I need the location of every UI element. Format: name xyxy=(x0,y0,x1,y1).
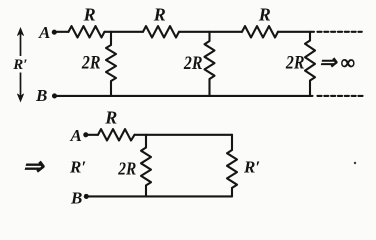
svg-text:R′: R′ xyxy=(243,158,260,177)
svg-text:2R: 2R xyxy=(117,159,136,179)
svg-text:R: R xyxy=(83,5,96,25)
svg-text:⇒: ⇒ xyxy=(23,154,46,181)
measurement arrow R' lower segment with head xyxy=(17,73,23,102)
wire top rail segment A to R1 xyxy=(57,31,69,33)
svg-text:2R: 2R xyxy=(183,53,202,74)
svg-text:B: B xyxy=(35,86,47,105)
wire top rail of bottom circuit xyxy=(135,134,233,136)
measurement arrow R' upper segment with head xyxy=(17,28,23,56)
wire bottom rail (node B rail) xyxy=(57,95,313,97)
resistor 2R (bottom circuit shunt) with leads xyxy=(141,135,151,197)
wire top rail dashed continuation xyxy=(317,31,361,33)
wire top rail segment R1 to R2 xyxy=(105,31,144,33)
wire top rail segment R3 to edge xyxy=(278,31,314,33)
node A terminal dot (bottom circuit) xyxy=(83,132,88,137)
wire bottom rail dashed continuation xyxy=(317,95,364,97)
resistor R3 xyxy=(242,26,278,37)
resistor R1 xyxy=(69,26,105,37)
resistor R (bottom circuit) xyxy=(98,129,135,140)
svg-text:R: R xyxy=(104,108,117,128)
svg-text:R: R xyxy=(258,5,271,25)
svg-text:∞: ∞ xyxy=(341,52,355,74)
svg-text:R′: R′ xyxy=(69,158,86,177)
node B terminal dot xyxy=(52,93,57,98)
svg-text:B: B xyxy=(70,188,82,205)
svg-text:R: R xyxy=(153,5,166,25)
svg-text:2R: 2R xyxy=(285,53,304,74)
svg-text:R′: R′ xyxy=(12,57,27,73)
svg-text:2R: 2R xyxy=(81,53,100,74)
paper speck xyxy=(354,162,356,164)
node A terminal dot xyxy=(52,30,57,35)
resistor 2R first shunt with leads xyxy=(106,32,116,96)
wire top rail segment R2 to R3 xyxy=(179,31,242,33)
wire from node A to R (bottom circuit) xyxy=(88,134,98,136)
svg-text:A: A xyxy=(70,126,82,145)
resistor 2R third shunt with leads xyxy=(305,32,315,96)
resistor R2 xyxy=(143,26,179,37)
wire bottom rail of bottom circuit xyxy=(88,195,232,197)
node B terminal dot (bottom circuit) xyxy=(84,194,89,199)
svg-text:A: A xyxy=(38,23,50,42)
resistor 2R second shunt with leads xyxy=(205,32,215,96)
svg-text:⇒: ⇒ xyxy=(319,50,338,74)
resistor R' (bottom circuit right shunt) with leads xyxy=(227,135,237,197)
